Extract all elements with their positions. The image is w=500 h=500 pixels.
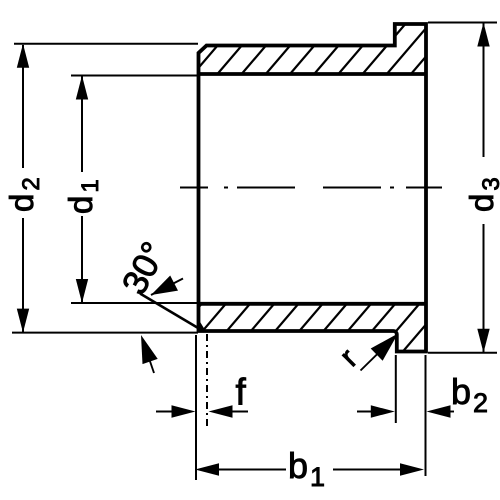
30 degree leader [151,279,183,296]
extension line chamfer end (dashed) [206,334,208,428]
bushing body outline [199,24,427,352]
extension line flange left down [395,355,397,423]
surface leader arrow [147,353,154,374]
hatching top wall [169,23,500,75]
dimension d1 [81,76,83,302]
hatching bottom wall [160,303,469,354]
extension lines d2 [12,44,198,333]
chamfer corner fill [197,317,207,332]
bore bottom edge [199,302,427,306]
centerline [180,187,442,189]
dimension d3 [483,23,485,352]
bore top edge [199,72,427,76]
dimension b2 [357,411,375,413]
r leader [361,347,386,371]
extension line left face down [195,335,197,480]
dimension d2 [22,45,24,332]
30 degree chamfer line [140,294,204,332]
dimension b1 [195,463,219,475]
extension lines d1 [71,76,198,304]
svg-text:f: f [236,372,247,413]
dimension f [156,411,175,413]
extension line right face down [425,355,427,476]
extension lines d3 [428,23,497,353]
